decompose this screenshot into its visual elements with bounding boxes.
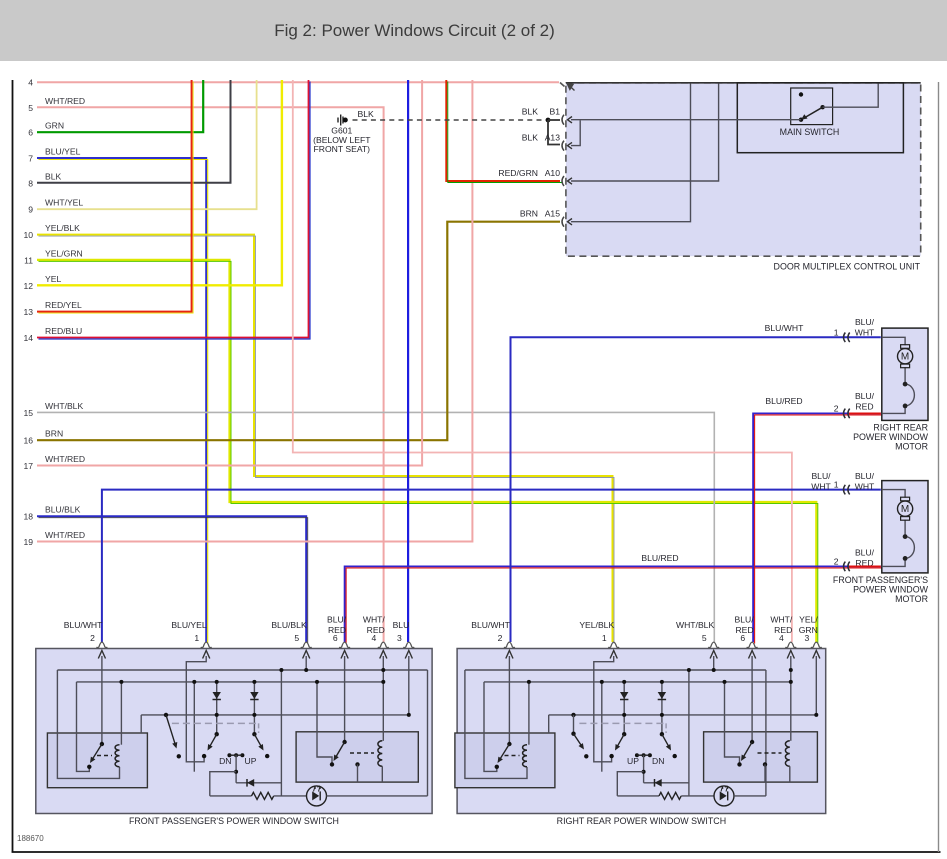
svg-text:5: 5 [294, 633, 299, 643]
svg-text:Fig 2: Power Windows Circuit (: Fig 2: Power Windows Circuit (2 of 2) [274, 21, 555, 40]
svg-text:BLK: BLK [522, 133, 539, 143]
svg-text:17: 17 [23, 461, 33, 471]
svg-text:BLU/: BLU/ [855, 317, 875, 327]
svg-text:WHT/BLK: WHT/BLK [45, 401, 83, 411]
svg-text:2: 2 [834, 403, 839, 413]
svg-text:BLU/WHT: BLU/WHT [471, 620, 510, 630]
svg-text:YEL/: YEL/ [799, 615, 818, 625]
svg-text:RED/YEL: RED/YEL [45, 300, 82, 310]
svg-text:WHT: WHT [855, 482, 875, 492]
svg-text:1: 1 [834, 480, 839, 490]
svg-text:BLU/RED: BLU/RED [765, 396, 802, 406]
svg-text:RED/BLU: RED/BLU [45, 326, 82, 336]
svg-text:YEL/BLK: YEL/BLK [45, 223, 80, 233]
svg-text:RED: RED [855, 401, 873, 411]
svg-text:WHT/YEL: WHT/YEL [45, 198, 83, 208]
svg-text:YEL: YEL [45, 274, 61, 284]
svg-text:18: 18 [23, 512, 33, 522]
svg-text:POWER WINDOW: POWER WINDOW [853, 584, 929, 594]
svg-text:BLU/BLK: BLU/BLK [271, 620, 307, 630]
svg-text:RIGHT REAR: RIGHT REAR [873, 422, 928, 432]
svg-text:BLU/: BLU/ [855, 548, 875, 558]
svg-text:UP: UP [627, 756, 639, 766]
svg-text:BRN: BRN [520, 209, 538, 219]
svg-text:WHT/RED: WHT/RED [45, 530, 85, 540]
svg-text:WHT/RED: WHT/RED [45, 96, 85, 106]
svg-text:19: 19 [23, 537, 33, 547]
svg-text:188670: 188670 [17, 834, 44, 843]
svg-text:FRONT PASSENGER'S: FRONT PASSENGER'S [833, 575, 928, 585]
svg-text:BLU/: BLU/ [811, 471, 831, 481]
svg-text:WHT/BLK: WHT/BLK [676, 620, 714, 630]
svg-text:RED: RED [367, 625, 385, 635]
svg-text:WHT/RED: WHT/RED [45, 454, 85, 464]
svg-text:BLU/YEL: BLU/YEL [45, 147, 81, 157]
svg-text:16: 16 [23, 436, 33, 446]
svg-text:10: 10 [23, 230, 33, 240]
svg-text:15: 15 [23, 408, 33, 418]
svg-text:MOTOR: MOTOR [895, 594, 928, 604]
svg-text:A13: A13 [545, 133, 561, 143]
svg-text:3: 3 [397, 633, 402, 643]
svg-text:DOOR MULTIPLEX CONTROL UNIT: DOOR MULTIPLEX CONTROL UNIT [774, 262, 921, 272]
svg-text:DN: DN [652, 756, 664, 766]
svg-text:BRN: BRN [45, 429, 63, 439]
svg-text:BLK: BLK [358, 109, 375, 119]
svg-text:BLU/: BLU/ [327, 615, 347, 625]
svg-text:1: 1 [834, 327, 839, 337]
svg-text:BLU/: BLU/ [734, 615, 754, 625]
svg-text:BLU: BLU [393, 620, 410, 630]
svg-text:DN: DN [219, 756, 231, 766]
svg-text:14: 14 [23, 333, 33, 343]
svg-text:BLU/WHT: BLU/WHT [765, 323, 804, 333]
svg-text:BLU/: BLU/ [855, 471, 875, 481]
svg-text:8: 8 [28, 178, 33, 188]
svg-text:4: 4 [28, 78, 33, 88]
svg-text:6: 6 [28, 128, 33, 138]
svg-text:GRN: GRN [799, 625, 818, 635]
svg-text:11: 11 [24, 255, 33, 265]
svg-text:WHT/: WHT/ [770, 615, 793, 625]
svg-text:GRN: GRN [45, 121, 64, 131]
svg-text:RIGHT REAR POWER WINDOW SWITCH: RIGHT REAR POWER WINDOW SWITCH [557, 816, 726, 826]
svg-text:RED: RED [328, 625, 346, 635]
svg-text:2: 2 [90, 633, 95, 643]
svg-text:A15: A15 [545, 209, 561, 219]
svg-text:1: 1 [602, 633, 607, 643]
svg-text:BLU/: BLU/ [855, 391, 875, 401]
svg-text:POWER WINDOW: POWER WINDOW [853, 432, 929, 442]
svg-text:BLU/WHT: BLU/WHT [64, 620, 103, 630]
svg-text:MAIN SWITCH: MAIN SWITCH [780, 127, 840, 137]
svg-text:M: M [901, 504, 909, 515]
svg-text:2: 2 [498, 633, 503, 643]
svg-text:M: M [901, 352, 909, 363]
svg-text:12: 12 [23, 281, 33, 291]
svg-text:WHT: WHT [811, 482, 831, 492]
svg-text:9: 9 [28, 205, 33, 215]
svg-text:RED: RED [735, 625, 753, 635]
svg-text:YEL/GRN: YEL/GRN [45, 248, 83, 258]
svg-text:BLK: BLK [522, 107, 539, 117]
svg-text:1: 1 [194, 633, 199, 643]
svg-text:5: 5 [28, 103, 33, 113]
svg-text:BLK: BLK [45, 171, 62, 181]
svg-text:B1: B1 [549, 107, 560, 117]
svg-text:A10: A10 [545, 168, 561, 178]
svg-text:WHT/: WHT/ [363, 615, 386, 625]
svg-text:13: 13 [23, 307, 33, 317]
svg-text:WHT: WHT [855, 327, 875, 337]
svg-text:MOTOR: MOTOR [895, 441, 928, 451]
svg-text:5: 5 [702, 633, 707, 643]
svg-text:RED/GRN: RED/GRN [498, 168, 538, 178]
svg-text:YEL/BLK: YEL/BLK [579, 620, 614, 630]
svg-text:BLU/BLK: BLU/BLK [45, 505, 81, 515]
svg-text:RED: RED [774, 625, 792, 635]
svg-text:7: 7 [28, 154, 33, 164]
svg-text:FRONT PASSENGER'S POWER WINDOW: FRONT PASSENGER'S POWER WINDOW SWITCH [129, 816, 339, 826]
svg-text:BLU/YEL: BLU/YEL [171, 620, 207, 630]
svg-text:FRONT SEAT): FRONT SEAT) [314, 144, 371, 154]
svg-text:BLU/RED: BLU/RED [641, 553, 678, 563]
svg-text:UP: UP [245, 756, 257, 766]
svg-text:2: 2 [834, 556, 839, 566]
